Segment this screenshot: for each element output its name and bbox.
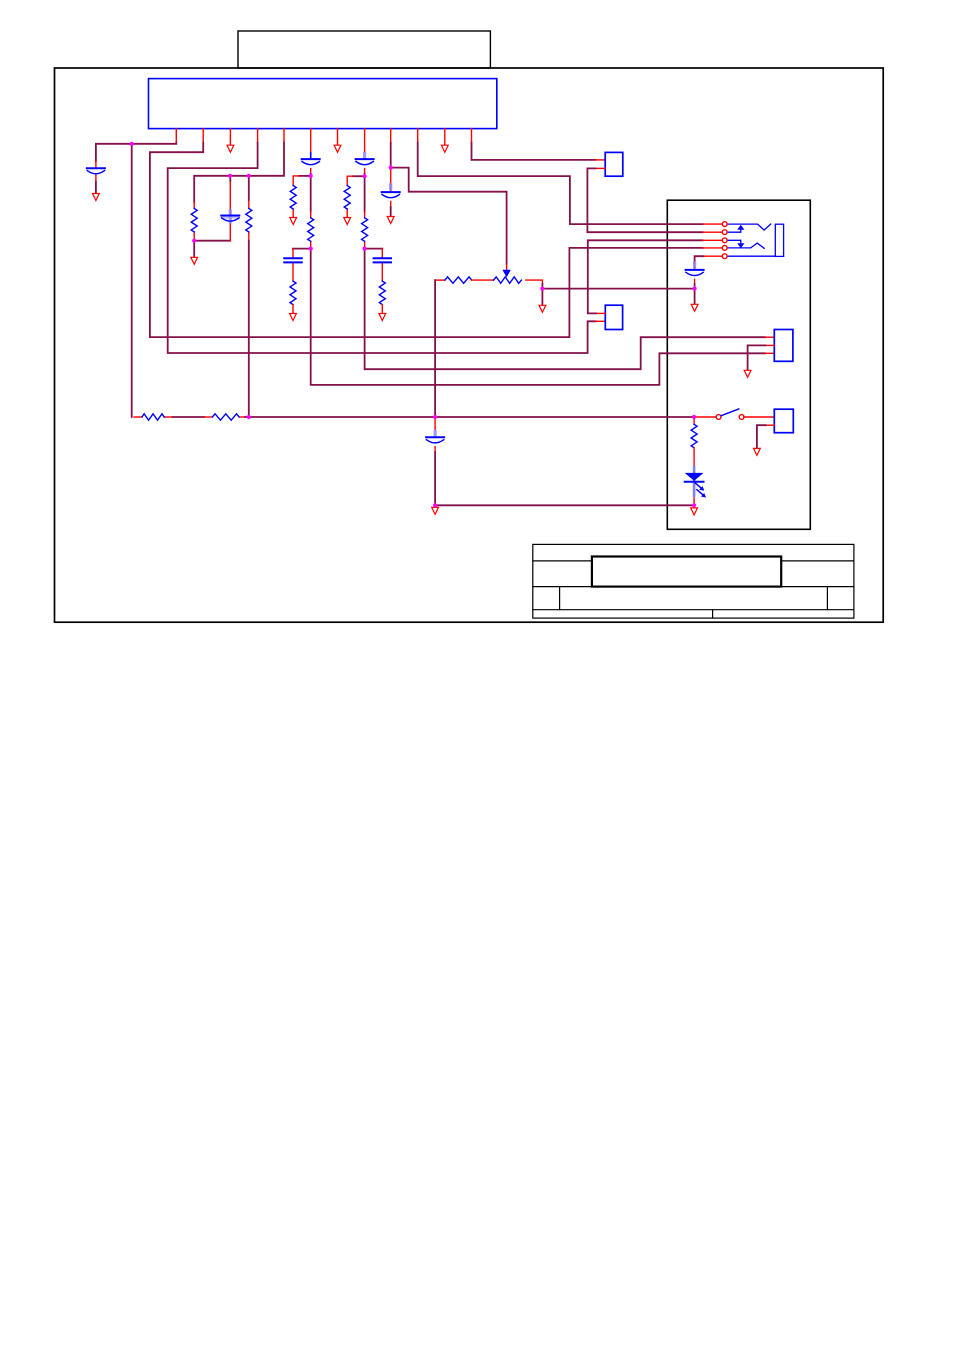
capacitor C3 [302,153,320,174]
ground pin7 [334,145,341,152]
ground cluster A [191,257,198,264]
junction [389,166,393,170]
junction [692,415,696,419]
ground C8 [432,507,439,514]
junction [433,503,437,507]
resistor R8 [379,281,385,313]
ground pin3 [227,145,234,152]
wire cluster A to ground [193,241,195,258]
ground C7 [387,217,394,224]
wire pin4 to connector J2 pin2 [168,143,596,353]
wire R2 top [248,176,250,200]
wire C9 to junction [694,284,696,289]
junction [247,174,251,178]
resistor R1 [191,202,197,240]
jack terminal 4 [722,246,727,251]
connector J4 [774,409,793,433]
capacitor C8 [426,417,444,452]
wire junction C left [353,175,365,177]
junction [363,174,367,178]
IC U1 [149,79,497,154]
ground C9 [691,304,698,311]
wire junction C2 to connector J3 pin1 [365,249,766,370]
ground LED [691,508,698,515]
capacitor C5 [356,152,374,174]
capacitor C1 [87,161,105,182]
jack terminal 3 [722,238,727,243]
ground pot [539,305,546,312]
LED D1 [685,466,706,506]
wire connector J3 pin2 to ground [748,345,775,370]
wire volume node [542,288,694,290]
resistor R12 [691,417,697,465]
ground J4 [754,448,761,455]
jack terminal 1 [722,222,727,227]
wire C7 to ground [390,207,392,217]
resistor R7 [362,212,368,249]
connector J3 [774,330,793,362]
jack J5 [727,224,784,256]
wire junction B left [299,175,311,177]
ground R6 [344,218,351,225]
ground pin11 [441,145,448,152]
junction [309,174,313,178]
jack terminal 5 [722,254,727,259]
wire junction B down [310,176,312,212]
resistor R2 [246,200,252,241]
resistor R3 [290,176,299,218]
wire C3 to junction [310,174,312,176]
wire jack sleeve to C9 [695,256,723,263]
wire pin1 to C1 and bottom bus [96,143,176,417]
wire cluster A bottom [194,240,230,242]
wire C1 to ground [95,182,97,194]
junction [247,415,251,419]
junction [192,239,196,243]
wire C9 junction to ground [694,289,696,305]
junction [363,247,367,251]
junction [433,415,437,419]
jack terminal 2 [722,230,727,235]
capacitor C9 [686,261,704,284]
wire C8 to LED net [435,452,694,505]
capacitor C7 [382,168,400,207]
wire pot left down [434,280,436,417]
wire junction C2 right [365,248,383,250]
wire cap C2 top [229,176,231,181]
ground C1 [93,194,100,201]
capacitor C6 [374,249,391,282]
ground R8 [379,314,386,321]
wire pin2 to jack ring contact [150,143,703,338]
junction [540,287,544,291]
capacitor C2 [221,181,240,241]
connector J2 [605,305,622,329]
connector module boundary box [667,200,810,529]
wire pin10 to jack tip contact [418,143,703,225]
switch S1 [694,409,774,419]
wire junction B2 to connector J3 pin3 [311,249,766,385]
junction [130,142,134,146]
junction [228,174,232,178]
junction [693,287,697,291]
wire connector J2 pin1 to jack [588,240,723,313]
wire pin12 to connector J1 pin1 [472,143,596,160]
wire R2 bottom to bus [248,241,250,417]
ground J3 [744,370,751,377]
resistor R9 [142,414,164,420]
resistor R5 [290,281,296,313]
junction [309,247,313,251]
wire pot junction to ground [541,289,543,306]
potentiometer RP1 [494,264,543,284]
wire C5 to junction [364,174,366,176]
wire pin5 bus cluster A [194,143,284,203]
resistor R6 [344,176,353,217]
ground R5 [290,314,297,321]
wire pin9 to junction D [390,143,392,168]
resistor R11 [435,277,493,283]
wire bottom bus [134,416,694,418]
ground R3 [290,218,297,225]
connector J1 [605,152,623,176]
wire pot right to junction [541,284,543,289]
resistor R4 [308,212,314,249]
wire connector J1 pin2 to jack [587,168,722,232]
wire junction C down [364,176,366,211]
wire junction D to pot wiper [391,168,507,265]
junction [692,503,696,507]
wire connector J4 pin2 to ground [757,425,774,448]
wire junction B2 left [293,248,311,250]
capacitor C4 [284,249,301,282]
resistor R10 [212,414,239,420]
